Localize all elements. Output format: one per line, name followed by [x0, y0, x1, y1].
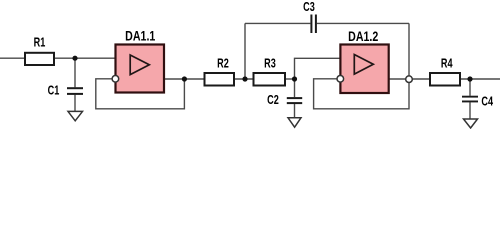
svg-text:R3: R3: [264, 57, 276, 71]
svg-text:DA1.1: DA1.1: [125, 28, 155, 44]
svg-text:DA1.2: DA1.2: [348, 29, 378, 45]
svg-text:R4: R4: [441, 57, 453, 71]
svg-text:C2: C2: [267, 93, 279, 107]
svg-text:C3: C3: [303, 1, 315, 15]
svg-text:C1: C1: [48, 84, 60, 98]
svg-text:R2: R2: [217, 57, 229, 71]
svg-text:C4: C4: [481, 95, 493, 109]
svg-text:R1: R1: [34, 36, 46, 50]
